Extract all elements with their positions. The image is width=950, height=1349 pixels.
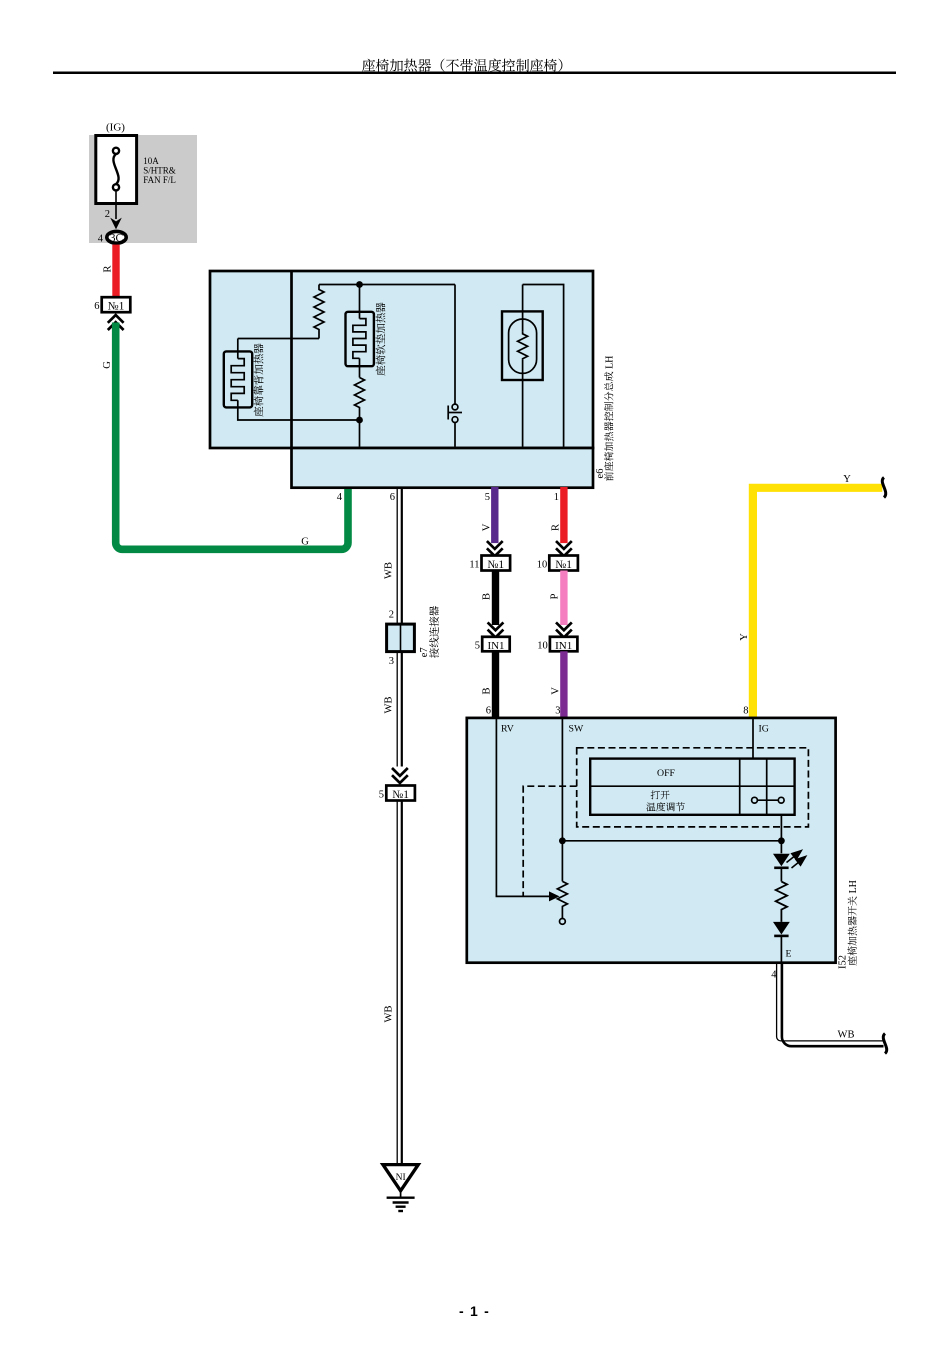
heater element seat cushion 座椅软垫加热器: [346, 312, 374, 366]
svg-text:WB: WB: [381, 697, 396, 714]
harness break squiggle: [883, 1034, 886, 1054]
resistor R3: [776, 882, 787, 922]
svg-text:№1: №1: [487, 556, 504, 572]
potentiometer VR1: [557, 881, 567, 918]
node dot SW junction: [559, 837, 566, 844]
wire R red from 3C to connector No.1: [112, 245, 119, 298]
wire B black from No.1 to IN1: [492, 571, 499, 626]
wire thermal switch top lead: [454, 285, 456, 405]
chevron pass-through down: [556, 541, 572, 556]
breaker stadium: [509, 319, 537, 373]
connector IN1 pin 10 box: [550, 637, 578, 652]
svg-text:温度调节: 温度调节: [646, 800, 685, 814]
arrow into connector 3C: [110, 218, 122, 230]
svg-text:IN1: IN1: [555, 637, 572, 653]
wire link SW junction to LED branch: [562, 840, 781, 842]
wire B black from IN1 to I52 pin 6: [492, 651, 499, 718]
svg-text:6: 6: [486, 703, 491, 718]
svg-text:8: 8: [743, 703, 748, 718]
svg-text:B: B: [479, 593, 494, 600]
title rule: [53, 72, 896, 75]
harness break squiggle: [882, 478, 885, 498]
wire V violet from IN1 to I52 pin 3: [560, 651, 567, 718]
svg-text:RV: RV: [501, 721, 514, 735]
svg-text:SW: SW: [569, 721, 584, 735]
wire WB from No.1 down to ground: [397, 801, 402, 1165]
wiper arrow: [549, 891, 560, 901]
node dot LED branch junction: [778, 837, 785, 844]
svg-text:(IG): (IG): [106, 119, 125, 135]
switch contact: [752, 797, 785, 803]
wire RV internal: [496, 718, 551, 897]
svg-text:R: R: [548, 524, 563, 531]
wire V violet from e6 pin 5: [491, 487, 498, 543]
svg-text:前座椅加热器控制分总成 LH: 前座椅加热器控制分总成 LH: [601, 356, 616, 482]
chevron pass-through down: [487, 541, 503, 556]
ground stem and hatch: [387, 1191, 415, 1211]
svg-text:1: 1: [554, 489, 559, 504]
svg-text:B: B: [479, 687, 494, 694]
diode D2: [773, 922, 790, 935]
svg-text:IG: IG: [759, 721, 769, 735]
svg-text:11: 11: [469, 556, 479, 571]
chevron pass-through down: [488, 622, 504, 637]
wire G green from connector No.1 down right and up to pin 4 of e6: [116, 323, 348, 550]
component e6 front seat heater control assy LH body: [210, 271, 593, 488]
svg-text:2: 2: [105, 206, 110, 221]
svg-text:2: 2: [389, 607, 394, 622]
svg-text:3C: 3C: [110, 229, 124, 245]
svg-text:WB: WB: [381, 562, 396, 579]
wire P pink from No.1 to IN1: [560, 571, 567, 626]
svg-text:接线连接器: 接线连接器: [427, 605, 442, 658]
component I52 seat heater switch LH body: [467, 718, 836, 963]
svg-text:3: 3: [555, 703, 560, 718]
node top bus: [238, 285, 564, 447]
svg-text:№1: №1: [392, 786, 409, 802]
ground NI triangle: [383, 1165, 418, 1191]
wire breaker bypass over: [523, 285, 564, 447]
LED emission arrows: [787, 851, 806, 868]
svg-text:G: G: [99, 361, 114, 369]
connector No.1 pin 6 box: [102, 297, 131, 312]
svg-text:座椅加热器开关 LH: 座椅加热器开关 LH: [844, 880, 859, 966]
wire WB from I52 pin 4 to right harness: [777, 963, 884, 1046]
connector No.1 pin 5 box: [386, 786, 415, 801]
svg-text:V: V: [548, 687, 563, 695]
node junction dot top: [356, 281, 363, 288]
svg-text:6: 6: [94, 298, 99, 313]
wire top bus y=284.5: [319, 284, 455, 286]
node junction dot bottom: [356, 417, 363, 424]
thermal switch S1: [448, 404, 462, 422]
fuse block shading: [89, 135, 197, 243]
connector No.1 pin 11 box: [482, 556, 511, 571]
svg-text:10: 10: [537, 637, 548, 652]
svg-text:OFF: OFF: [657, 765, 676, 779]
heater element seat back 座椅靠背加热器: [224, 351, 252, 407]
wire IG internal: [752, 718, 754, 759]
svg-text:№1: №1: [108, 298, 125, 314]
connector No.1 pin 10 box: [549, 556, 578, 571]
resistor R1: [314, 285, 324, 339]
chevron pass-through up: [108, 315, 124, 330]
svg-text:5: 5: [475, 637, 480, 652]
wire breaker bottom lead: [522, 360, 524, 447]
svg-text:座椅软垫加热器: 座椅软垫加热器: [373, 302, 388, 377]
wire WB from e7 down to connector No.1: [397, 652, 402, 767]
svg-text:P: P: [547, 593, 562, 599]
breaker zigzag element: [518, 332, 528, 360]
svg-text:WB: WB: [838, 1027, 855, 1042]
svg-text:Y: Y: [736, 633, 751, 641]
wire R1 top to back heater link: [238, 338, 319, 340]
e6 internal divider: [290, 271, 293, 448]
svg-text:4: 4: [98, 231, 104, 246]
svg-text:5: 5: [379, 786, 384, 801]
svg-text:Y: Y: [843, 471, 851, 486]
svg-text:3: 3: [389, 653, 394, 668]
LED D1: [773, 854, 790, 867]
svg-text:FAN F/L: FAN F/L: [143, 173, 176, 186]
svg-text:G: G: [301, 534, 309, 549]
svg-text:6: 6: [390, 489, 395, 504]
chevron pass-through down: [556, 622, 572, 637]
circuit breaker U1 outer box: [502, 311, 543, 380]
wire breaker top lead: [522, 285, 524, 332]
svg-text:NI: NI: [396, 1169, 406, 1183]
svg-text:10: 10: [537, 556, 548, 571]
wire from switch to LED branch: [780, 815, 782, 841]
svg-text:V: V: [479, 523, 494, 531]
wire cushion heater bottom to junction: [359, 358, 361, 377]
potentiometer open end: [560, 919, 566, 925]
dashed switch outline: [577, 748, 809, 827]
svg-text:- 1 -: - 1 -: [459, 1303, 490, 1319]
connector e7 joint connector box: [387, 624, 415, 652]
fuse element symbol: [113, 148, 119, 191]
wire Y yellow from right harness to I52 pin 8: [753, 488, 882, 718]
svg-text:R: R: [100, 265, 115, 272]
connector 3C oval: [107, 231, 126, 243]
wire LED to resistor: [780, 868, 782, 882]
chevron pass-through down: [392, 768, 408, 783]
svg-text:5: 5: [485, 489, 490, 504]
svg-text:座椅靠背加热器: 座椅靠背加热器: [252, 343, 267, 418]
wire cushion heater top lead: [359, 285, 361, 319]
wire to LED: [780, 841, 782, 854]
svg-text:WB: WB: [381, 1006, 396, 1023]
svg-text:IN1: IN1: [487, 637, 504, 653]
svg-text:4: 4: [337, 489, 343, 504]
resistor R2: [355, 378, 365, 410]
wire WB from e6 pin 6 down to e7: [397, 487, 402, 624]
wire fuse pin 2 down: [115, 190, 117, 219]
dashed mechanical link: [523, 786, 577, 896]
fuse F1 10A S/HTR&FAN F/L box: [96, 136, 137, 204]
connector IN1 pin 5 box: [482, 637, 510, 652]
svg-text:E: E: [786, 946, 792, 960]
wire back heater bottom lead: [238, 400, 360, 420]
wire back heater top lead: [237, 339, 239, 359]
svg-text:№1: №1: [555, 556, 572, 572]
wire R red from e6 pin 1: [560, 487, 567, 543]
switch table: [590, 759, 794, 815]
wire diode to pin E: [780, 936, 782, 963]
wire thermal switch bottom lead: [454, 422, 456, 446]
wire SW internal: [561, 718, 563, 882]
